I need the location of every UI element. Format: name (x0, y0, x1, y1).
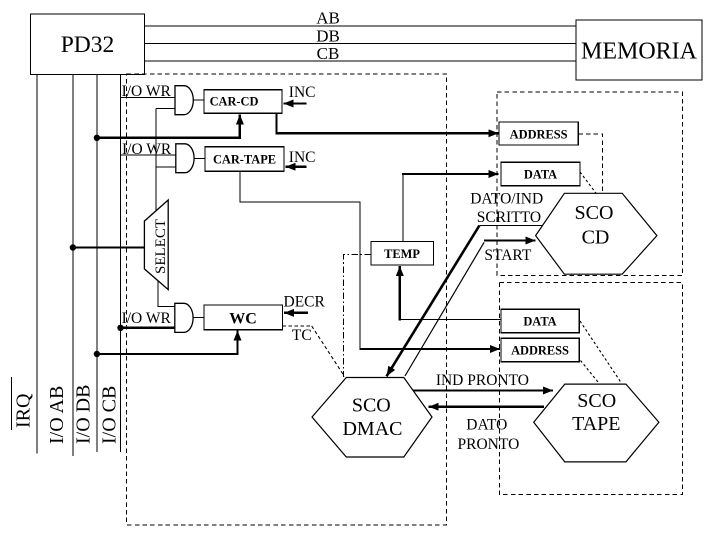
wire I/O CB vertical line (120, 75, 122, 453)
register TEMP box (371, 242, 434, 266)
svg-text:INC: INC (289, 84, 316, 101)
register CAR-TAPE box (205, 147, 284, 171)
svg-text:IND PRONTO: IND PRONTO (436, 372, 529, 389)
svg-text:DATA: DATA (524, 168, 557, 182)
svg-text:START: START (484, 247, 531, 264)
junction dot on I/O CB line (117, 325, 123, 331)
wire DATA(TAPE) to TEMP horizontal (400, 318, 501, 320)
svg-text:CAR-CD: CAR-CD (210, 95, 259, 109)
wire bus DB (145, 43, 577, 45)
controller SCO CD hexagon (536, 193, 657, 274)
wire START diagonal from DMAC (405, 242, 484, 376)
svg-text:CD: CD (582, 227, 610, 249)
wire bus AB (145, 25, 577, 27)
svg-text:DATA: DATA (523, 315, 556, 329)
register ADDRESS (TAPE) box (501, 338, 579, 361)
wire dashed ADDRESS(CD) to SCO CD (578, 134, 602, 193)
svg-text:SCRITTO: SCRITTO (477, 209, 541, 226)
svg-text:MEMORIA: MEMORIA (581, 39, 698, 65)
svg-text:SCO: SCO (575, 202, 614, 224)
wire CAR-CD load from I/O DB (thick) (97, 137, 240, 139)
junction dot on I/O DB line (94, 135, 100, 141)
processor PD32 box (31, 14, 145, 75)
mux SELECT (144, 200, 169, 290)
svg-text:ADDRESS: ADDRESS (510, 127, 568, 141)
svg-text:WC: WC (229, 311, 257, 328)
svg-text:I/O WR: I/O WR (122, 141, 172, 158)
junction dot on I/O AB line (70, 244, 76, 250)
svg-text:AB: AB (316, 9, 340, 28)
wire gate U3 output (193, 317, 204, 319)
svg-text:DECR: DECR (284, 294, 326, 311)
wire I/O DB vertical line (96, 75, 98, 453)
controller SCO TAPE hexagon (534, 384, 659, 462)
svg-text:I/O DB: I/O DB (73, 385, 95, 444)
wire TC dashed from WC (283, 325, 312, 327)
and gate U1 (CAR-CD write) (175, 86, 193, 115)
dashed box CD peripheral (497, 92, 683, 276)
wire IRQ vertical line (36, 75, 38, 454)
wire WC load from I/O DB (thick) (97, 353, 238, 355)
svg-text:PRONTO: PRONTO (458, 436, 520, 453)
wire gate U1 output (193, 99, 204, 101)
svg-text:CB: CB (317, 44, 340, 63)
wire dashed ADDRESS(TAPE) diagonal to SCO TAPE (581, 361, 600, 384)
register WC box (204, 305, 283, 330)
wire arrow up into CAR-CD bottom (239, 115, 241, 140)
svg-text:I/O WR: I/O WR (122, 310, 172, 327)
svg-text:I/O AB: I/O AB (46, 386, 68, 444)
svg-text:IRQ: IRQ (13, 393, 35, 428)
wire select input to gate U1 (156, 108, 175, 110)
and gate U3 (WC write) (175, 303, 193, 332)
node label IRQ (negated, rotated) (12, 377, 35, 430)
wire SELECT input from I/O AB (thick) (73, 246, 144, 248)
register DATA (TAPE) box (501, 309, 579, 332)
and gate U2 (CAR-TAPE write) (176, 144, 194, 173)
wire dash-dot control from DMAC to TEMP (344, 255, 372, 378)
wire SELECT output down to gate U3 (158, 281, 175, 306)
wire START arrow into SCO CD (484, 239, 535, 241)
wire arrow into DATA(CD) (402, 173, 498, 175)
svg-text:TC: TC (292, 327, 312, 344)
memory MEMORIA box (576, 20, 702, 80)
svg-text:SCO: SCO (352, 394, 391, 416)
wire dashed DATA(TAPE) diagonal to SCO TAPE (580, 321, 622, 384)
wire select vertical line to gates (155, 109, 157, 211)
wire IND PRONTO arrow DMAC to TAPE (413, 389, 553, 391)
wire INC arrow into CAR-CD (284, 102, 307, 104)
dashed interface box (DMA controller) (127, 74, 447, 525)
svg-text:TEMP: TEMP (384, 247, 420, 261)
wire I/O AB vertical line (72, 75, 74, 457)
dashed box TAPE peripheral (500, 283, 683, 495)
wire arrow up into TEMP bottom (thick) (399, 266, 401, 320)
svg-text:SELECT: SELECT (153, 219, 169, 274)
wire bus CB (145, 60, 577, 62)
register ADDRESS (CD) box (499, 122, 578, 145)
wire gate U2 output (194, 157, 205, 159)
svg-text:DMAC: DMAC (342, 418, 402, 440)
svg-text:CAR-TAPE: CAR-TAPE (213, 153, 276, 167)
svg-text:DATO: DATO (466, 417, 507, 434)
wire TC dashed diagonal to DMAC (312, 326, 345, 377)
wire SCRITTO horizontal to SCO CD (479, 225, 543, 227)
wire dashed DATA(CD) diagonal to SCO CD (580, 172, 597, 195)
controller SCO DMAC hexagon (312, 378, 432, 458)
register DATA (CD) box (501, 162, 580, 185)
wire DECR arrow into WC (284, 312, 308, 314)
wire arrow up into WC bottom (236, 331, 238, 356)
wire TEMP output up (402, 174, 404, 242)
svg-text:DB: DB (316, 27, 340, 46)
wire arrow into ADDRESS(TAPE) (359, 348, 500, 350)
svg-text:PD32: PD32 (61, 32, 115, 58)
wire DATO PRONTO arrow TAPE to DMAC (429, 405, 544, 408)
wire CAR-TAPE to ADDRESS(TAPE) (240, 171, 360, 349)
wire I/O WR input to gate U3 (thick from junction) (121, 327, 175, 329)
wire CAR-CD to ADDRESS(CD) (277, 114, 499, 134)
svg-text:I/O CB: I/O CB (99, 386, 121, 444)
register CAR-CD box (204, 90, 282, 114)
wire DATO/IND SCRITTO thick diagonal arrow to DMAC (387, 226, 480, 377)
junction dot on I/O DB line (WC) (94, 351, 100, 357)
wire I/O WR input to gate U1 (121, 96, 176, 98)
svg-text:ADDRESS: ADDRESS (511, 344, 569, 358)
wire INC arrow into CAR-TAPE (286, 165, 307, 167)
svg-text:TAPE: TAPE (572, 413, 620, 435)
svg-text:INC: INC (289, 149, 316, 166)
wire I/O WR input to gate U2 (121, 154, 176, 156)
svg-text:SCO: SCO (577, 390, 616, 412)
wire select input to gate U2 (156, 166, 176, 168)
svg-text:DATO/IND: DATO/IND (470, 191, 543, 208)
svg-text:I/O WR: I/O WR (122, 83, 172, 100)
